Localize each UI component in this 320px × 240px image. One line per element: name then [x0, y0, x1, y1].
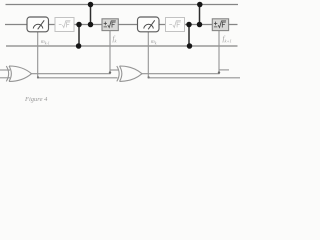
classical wire branch f_k to XOR U2 upper input: [110, 69, 119, 71]
meter M1 needle: [38, 20, 45, 29]
meter M2 dial arc: [144, 24, 154, 28]
wire rail 3 (bottom qubit rail): [6, 45, 238, 47]
meter M1 dial arc: [33, 24, 43, 28]
node dot on rail2 at v1: [88, 22, 94, 28]
classical wire f_k (XOR U1 output line to box G1): [32, 31, 111, 74]
node dot on rail2 at v3: [197, 22, 203, 28]
wire rail 2 (middle qubit rail): [5, 24, 238, 26]
node dot on rail2 at v2: [76, 22, 82, 28]
classical wire m_k-1 (meter 1 output: down then right to XOR U2 lower input): [38, 32, 118, 78]
wire vertical v3 (rail1 to rail2, stage k+1): [199, 5, 201, 25]
gate box G2 (+/- sqrt(F)): [212, 19, 228, 31]
wire vertical v4 (rail2 to rail3, stage k+1): [188, 25, 190, 47]
node dot on rail1 at v1: [88, 2, 94, 8]
XOR gate U1: [6, 66, 31, 81]
meter box M1: [27, 17, 49, 32]
corner blobs: [109, 71, 111, 73]
gate box L2 (light, -sqrt(F)): [166, 18, 185, 32]
meter box M2: [138, 17, 160, 32]
node dot on rail1 at v3: [197, 2, 203, 8]
XOR gate U2: [117, 66, 142, 81]
wire vertical v2 (rail2 to rail3, stage k): [78, 25, 80, 47]
gate box L1 (light, -sqrt(F)): [55, 18, 74, 32]
classical wire m_k (meter 2 output: down then right toward next stage): [148, 32, 240, 78]
classical wire branch f_k+1 toward next stage XOR: [219, 69, 229, 71]
meter M2 needle: [148, 20, 155, 29]
XOR gate U1 input stubs: [0, 69, 10, 71]
gate box G1 (+/- sqrt(F)): [102, 19, 118, 31]
wire vertical v1 (rail1 to rail2, stage k): [90, 5, 92, 25]
classical wire f_k+1 (XOR U2 output line to box G2): [142, 31, 219, 74]
svg-text:Figure 4: Figure 4: [24, 96, 48, 103]
node dot on rail2 at v4: [186, 22, 192, 28]
wire rail 1 (top qubit rail): [6, 4, 239, 6]
node dot on rail3 at v2: [76, 43, 82, 49]
node dot on rail3 at v4: [187, 43, 193, 49]
